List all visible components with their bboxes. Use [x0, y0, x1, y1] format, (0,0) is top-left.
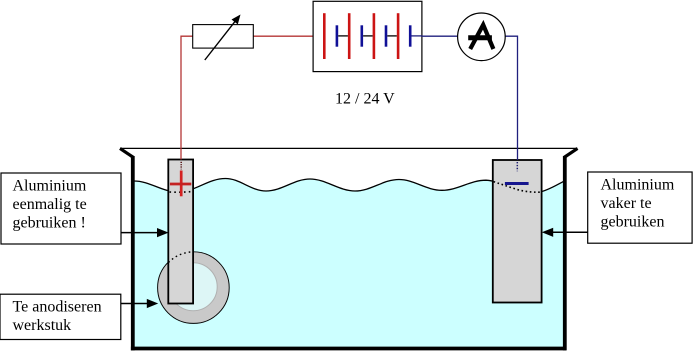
svg-text:Aluminium: Aluminium — [601, 177, 675, 194]
svg-text:Te anodiseren: Te anodiseren — [13, 299, 102, 316]
svg-text:eenmalig te: eenmalig te — [13, 196, 87, 213]
svg-text:gebruiken: gebruiken — [601, 214, 665, 231]
svg-text:Aluminium: Aluminium — [13, 178, 87, 195]
svg-text:werkstuk: werkstuk — [13, 317, 72, 334]
svg-text:gebruiken !: gebruiken ! — [13, 215, 86, 232]
svg-text:vaker te: vaker te — [601, 195, 652, 212]
svg-text:12 / 24 V: 12 / 24 V — [335, 91, 395, 108]
